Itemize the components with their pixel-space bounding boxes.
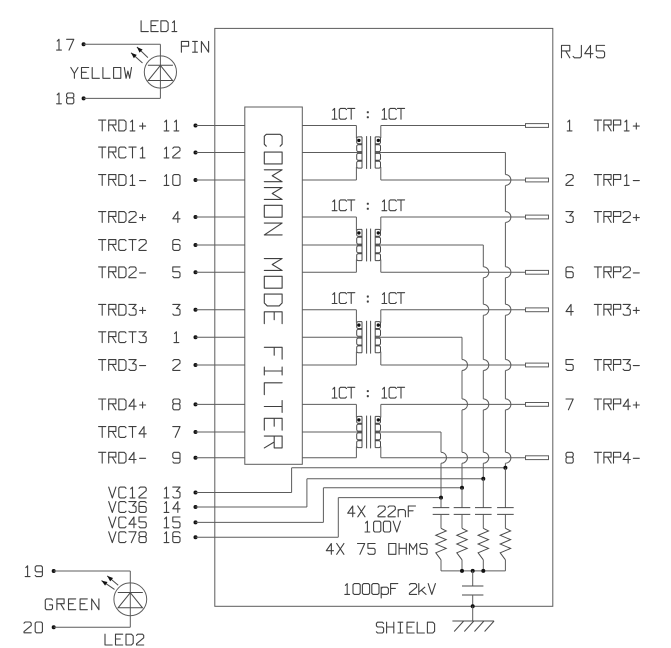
wire filter to T1 center tap <box>302 152 362 154</box>
wire TRP2+ to RJ45 pin 3 <box>381 216 526 218</box>
transformer T3 ratio label 1CT : 1CT <box>332 293 404 304</box>
wire T4 center tap to termination <box>375 431 441 433</box>
RJ45 pin 6 contact <box>526 270 549 274</box>
node dot pin 17 <box>82 42 86 46</box>
wire pin 4 to filter <box>196 216 245 218</box>
LED2 green LED <box>114 583 147 616</box>
wire pin 8 to filter <box>196 403 245 405</box>
transformer T2 ratio label 1CT : 1CT <box>332 200 404 211</box>
module outline box <box>215 28 553 606</box>
resistor R3 75 ohms <box>478 528 488 560</box>
pin 11 label TRD1+ <box>99 120 146 131</box>
pin 20 label <box>24 622 42 633</box>
transformer T2 <box>357 229 362 260</box>
node dot pin 4 <box>194 215 198 219</box>
label SHIELD <box>376 622 434 633</box>
wire filter to T4 bottom <box>302 457 356 459</box>
wire filter to T3 bottom <box>302 364 356 366</box>
wire pin 17 to LED1 <box>84 43 161 45</box>
pin 16 label VC78 <box>109 532 147 543</box>
transformer T3 phase dots <box>357 323 360 326</box>
label RJ45 <box>562 45 605 57</box>
node dot pin 10 <box>194 178 198 182</box>
pin 10 label TRD1- <box>99 175 146 186</box>
wire termination bus <box>441 570 505 572</box>
junction shield dot <box>471 604 475 608</box>
node dot pin 16 <box>194 535 198 539</box>
common mode filter title <box>264 134 282 448</box>
wire VC45 route <box>196 521 324 523</box>
RJ45 pin 1 label TRP1+ <box>567 120 572 131</box>
LED1 label <box>141 21 177 32</box>
pin 13 label VC12 <box>109 487 147 498</box>
node dot pin 1 <box>194 335 198 339</box>
pin 18 label <box>57 93 74 104</box>
pin 9 label TRD4- <box>99 452 146 463</box>
wire T2 center tap to termination <box>375 244 483 246</box>
wire filter to T2 center tap <box>302 244 362 246</box>
capacitor C3 22nF <box>482 479 484 508</box>
RJ45 pin 4 contact <box>526 308 549 312</box>
node dot pin 13 <box>194 491 198 495</box>
node dot pin 9 <box>194 456 198 460</box>
node dot pin 5 <box>194 270 198 274</box>
pin 2 label TRD3- <box>99 360 146 371</box>
label 4X 22nF <box>348 506 416 517</box>
transformer T4 ratio label 1CT : 1CT <box>332 387 404 398</box>
wire pin 18 to LED1 <box>84 97 161 99</box>
resistor R1 75 ohms <box>436 528 446 560</box>
RJ45 pin 2 label TRP1- <box>566 175 573 186</box>
transformer T2 phase dots <box>357 231 360 234</box>
wire TRP1- to RJ45 pin 2 <box>381 179 526 181</box>
wire VC78 route <box>196 536 339 538</box>
wire TRP4- to RJ45 pin 8 <box>381 457 526 459</box>
LED2 emission arrows <box>107 576 118 585</box>
RJ45 pin 3 contact <box>526 215 549 219</box>
RJ45 pin 7 contact <box>526 403 549 407</box>
transformer T4 phase dots <box>357 418 360 421</box>
wire pin 19 to LED2 <box>54 570 131 572</box>
wire pin 20 to LED2 <box>54 626 131 628</box>
RJ45 pin 3 label TRP2+ <box>566 212 573 223</box>
label 100V <box>365 521 400 532</box>
wire pin 11 to filter <box>196 125 245 127</box>
RJ45 pin 5 contact <box>526 363 549 367</box>
capacitor C5 1000pF 2kV <box>472 571 474 586</box>
label PIN <box>181 41 208 52</box>
wire pin 10 to filter <box>196 179 245 181</box>
LED2 label <box>105 634 144 645</box>
RJ45 pin 6 label TRP2- <box>566 267 573 278</box>
capacitor C2 22nF <box>461 488 463 508</box>
LED1 yellow LED <box>144 56 176 88</box>
pin 15 label VC45 <box>109 517 147 528</box>
junction VC45 <box>460 486 464 490</box>
wire TRP4+ to RJ45 pin 7 <box>381 403 526 405</box>
wire T1 center tap to termination <box>375 152 505 154</box>
shield chassis ground <box>452 621 494 632</box>
node dot pin 20 <box>52 625 56 629</box>
RJ45 pin 8 contact <box>526 456 549 460</box>
node dot pin 11 <box>194 124 198 128</box>
node dot pin 6 <box>194 243 198 247</box>
wire VC12 route <box>196 492 292 494</box>
junction VC78 <box>439 496 443 500</box>
transformer T3 <box>357 322 362 353</box>
node dot pin 12 <box>194 151 198 155</box>
transformer T1 ratio label 1CT : 1CT <box>332 108 404 119</box>
wire filter to T4 top <box>302 403 356 405</box>
wire filter to T3 top <box>302 309 356 311</box>
RJ45 pin 7 label TRP4+ <box>566 399 573 410</box>
RJ45 pin 4 label TRP3+ <box>566 304 573 315</box>
pin 8 label TRD4+ <box>99 399 146 410</box>
transformer T1 phase dots <box>357 139 360 142</box>
wire filter to T3 center tap <box>302 336 362 338</box>
node dot pin 2 <box>194 363 198 367</box>
label 1000pF 2kV <box>345 584 436 598</box>
wire TRP1+ to RJ45 pin 1 <box>381 125 526 127</box>
wire filter to T1 bottom <box>302 179 356 181</box>
wire pin 6 to filter <box>196 244 245 246</box>
label 4X 75 OHMS <box>326 544 427 555</box>
node dot pin 7 <box>194 430 198 434</box>
capacitor C4 22nF <box>504 468 506 508</box>
pin 4 label TRD2+ <box>99 212 146 223</box>
common mode filter U1 box <box>245 107 302 464</box>
pin 19 label <box>25 566 42 577</box>
label YELLOW <box>71 68 132 79</box>
node dot pin 15 <box>194 520 198 524</box>
RJ45 pin 8 label TRP4- <box>566 452 573 463</box>
transformer T1 <box>357 137 362 168</box>
pin 12 label TRCT1 <box>99 147 145 158</box>
pin 6 label TRCT2 <box>99 240 147 251</box>
LED1 emission arrows <box>137 47 148 58</box>
pin 5 label TRD2- <box>99 267 146 278</box>
label GREEN <box>45 599 99 610</box>
node dot pin 8 <box>194 402 198 406</box>
transformer T4 <box>357 416 362 447</box>
resistor R2 75 ohms <box>457 528 467 560</box>
node dot pin 18 <box>82 96 86 100</box>
pin 3 label TRD3+ <box>99 304 146 315</box>
pin 17 label <box>57 39 74 50</box>
wire pin 7 to filter <box>196 431 245 433</box>
resistor R4 75 ohms <box>500 528 510 560</box>
wire TRP2- to RJ45 pin 6 <box>381 271 526 273</box>
RJ45 pin 5 label TRP3- <box>566 360 573 371</box>
wire filter to T2 top <box>302 216 356 218</box>
wire filter to T2 bottom <box>302 271 356 273</box>
junction VC36 <box>481 477 485 481</box>
wire pin 5 to filter <box>196 271 245 273</box>
wire TRP3+ to RJ45 pin 4 <box>381 309 526 311</box>
wire pin 1 to filter <box>196 336 245 338</box>
wire T3 center tap to termination <box>375 336 462 338</box>
node dot pin 19 <box>52 569 56 573</box>
wire pin 9 to filter <box>196 457 245 459</box>
wire pin 12 to filter <box>196 152 245 154</box>
wire pin 3 to filter <box>196 309 245 311</box>
pin 1 label TRCT3 <box>99 332 147 343</box>
RJ45 pin 2 contact <box>526 178 549 182</box>
capacitor C1 22nF <box>440 498 442 508</box>
node dot pin 14 <box>194 505 198 509</box>
wire pin 2 to filter <box>196 364 245 366</box>
wire filter to T1 top <box>302 125 356 127</box>
pin 14 label VC36 <box>109 502 147 513</box>
junction bus dots <box>460 569 464 573</box>
wire TRP3- to RJ45 pin 5 <box>381 364 526 366</box>
wire filter to T4 center tap <box>302 431 362 433</box>
wire to shield ground <box>472 606 474 621</box>
wire VC36 route <box>196 506 307 508</box>
pin 7 label TRCT4 <box>99 427 147 438</box>
junction VC12 <box>503 466 507 470</box>
RJ45 pin 1 contact <box>526 124 549 128</box>
node dot pin 3 <box>194 308 198 312</box>
